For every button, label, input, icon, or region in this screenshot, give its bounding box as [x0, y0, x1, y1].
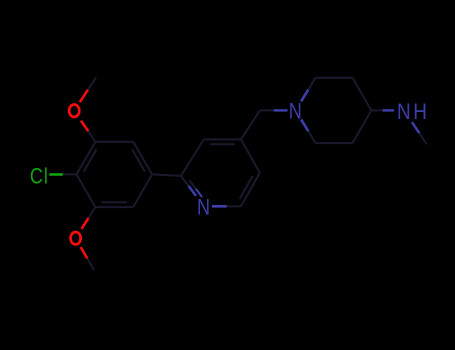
bond C5-C6 (pyridine edge) — [241, 173, 260, 206]
bond C4(piperidine)-NH (nitrogen half) — [383, 109, 394, 111]
bond C3-C4 (pyridine top edge) — [204, 138, 241, 140]
bond C4(piperidine)-NH (carbon half) — [371, 109, 382, 111]
bond N-C6 (piperidine) (carbon half) — [308, 131, 315, 143]
bond O(bottom)-CH3 (carbon half) — [87, 259, 94, 270]
bond O(methoxy bottom)-C5 (carbon half) — [89, 207, 96, 218]
double bond inner line C3=C4 pyridine — [210, 143, 235, 145]
svg-text:Cl: Cl — [30, 165, 49, 189]
bond C3-C4 (piperidine edge) — [353, 78, 372, 111]
bond O(top)-CH3 (oxygen half) — [80, 90, 88, 103]
bond N1=C2 main line (nitrogen half) — [189, 186, 197, 196]
double bond inner line C1=C2 — [132, 149, 145, 171]
svg-text:N: N — [289, 100, 302, 124]
bond O(top)-CH3 (carbon half) — [88, 77, 96, 89]
double bond inner line C3=C4 — [84, 149, 97, 171]
bond CH2-N(piperidine) (nitrogen half) — [274, 109, 288, 111]
bond N1-C6 (pyridine) (hetero half) — [212, 205, 227, 208]
bond C4-C5 (benzene edge) — [77, 174, 96, 207]
bond C2-C3 (piperidine top edge) — [315, 77, 352, 79]
bond O(methoxy bottom)-C5 (hetero half) — [82, 218, 89, 229]
bond O(bottom)-CH3 (oxygen half) — [81, 247, 88, 259]
bond Cl-C4 (carbon half) — [63, 173, 77, 175]
bond C1-C2 (benzene edge) — [133, 142, 152, 175]
bond C2-C3 (pyridine edge) — [181, 139, 204, 176]
svg-text:N: N — [197, 196, 210, 220]
bond C4-C5 (piperidine edge) — [353, 110, 372, 143]
bond C4-C5 (pyridine edge) — [241, 139, 260, 173]
bond C4(pyridine)-CH2 linker — [241, 110, 260, 139]
bond N-C6 (piperidine) (hetero half) — [301, 119, 308, 131]
bond C6-C1 (benzene edge) — [133, 174, 152, 207]
double bond inner line N1=C2 (carbon half) — [189, 180, 195, 189]
bond C3-C4 (benzene edge) — [77, 142, 96, 175]
svg-text:NH: NH — [397, 99, 429, 124]
double bond inner line C5=C6 pyridine — [240, 176, 253, 199]
bond C2-C3 (benzene top edge) — [95, 141, 133, 143]
atom O methoxy top — [69, 105, 79, 117]
bond NH-CH3 (carbon half) — [419, 133, 426, 144]
atom O methoxy bottom — [71, 232, 81, 244]
bond O(methoxy top)-C3 (hetero half) — [81, 121, 88, 132]
bond CH2-N(piperidine) (carbon half) — [260, 109, 274, 111]
bond N1=C2 main line (carbon half) — [181, 176, 189, 186]
bond C5-C6 (benzene bottom edge) — [95, 206, 133, 208]
bond O(methoxy top)-C3 (carbon half) — [88, 131, 95, 142]
bond Cl-C4 (chlorine half) — [49, 173, 63, 176]
bond N1-C6 (pyridine) (carbon half) — [227, 205, 242, 207]
bond NH-CH3 (nitrogen half) — [412, 122, 420, 133]
bond C1(benzene)-C2(pyridine) biaryl link — [152, 174, 181, 176]
bond N-C2 (piperidine) (carbon half) — [308, 78, 315, 90]
double bond inner line C5=C6 — [101, 201, 127, 203]
double bond inner line N1=C2 (hetero half) — [196, 189, 202, 198]
bond N-C2 (piperidine) (hetero half) — [301, 90, 308, 102]
bond C5-C6 (piperidine bottom edge) — [315, 142, 352, 144]
